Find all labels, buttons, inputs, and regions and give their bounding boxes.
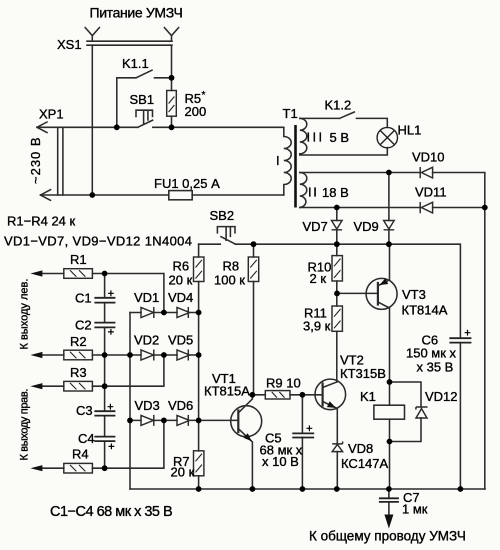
svg-text:II: II — [308, 185, 318, 200]
svg-text:VD4: VD4 — [168, 290, 193, 305]
svg-text:КТ815А: КТ815А — [204, 384, 250, 399]
svg-text:150 мк х: 150 мк х — [406, 346, 457, 361]
svg-text:КТ315В: КТ315В — [340, 366, 386, 381]
svg-text:VD3: VD3 — [135, 398, 160, 413]
svg-text:C3: C3 — [76, 403, 93, 418]
svg-text:5 В: 5 В — [330, 130, 350, 145]
svg-text:3,9 к: 3,9 к — [303, 319, 331, 334]
svg-text:VD9: VD9 — [354, 219, 379, 234]
svg-text:R8: R8 — [223, 259, 240, 274]
svg-text:R4: R4 — [72, 447, 89, 462]
svg-text:C4: C4 — [78, 431, 95, 446]
svg-text:R1: R1 — [70, 252, 87, 267]
svg-text:*: * — [202, 90, 206, 101]
svg-text:K1: K1 — [360, 389, 376, 404]
svg-text:КС147А: КС147А — [341, 456, 389, 471]
svg-text:HL1: HL1 — [398, 123, 422, 138]
svg-text:VD12: VD12 — [425, 389, 458, 404]
svg-text:Питание УМЗЧ: Питание УМЗЧ — [90, 5, 183, 21]
svg-text:КТ814А: КТ814А — [402, 303, 448, 318]
svg-text:I: I — [276, 153, 280, 168]
svg-text:XP1: XP1 — [39, 107, 64, 122]
svg-text:K1.2: K1.2 — [325, 98, 352, 113]
svg-text:х 35 В: х 35 В — [417, 360, 454, 375]
svg-text:VD1−VD7, VD9−VD12 1N4004: VD1−VD7, VD9−VD12 1N4004 — [4, 234, 192, 249]
svg-text:C2: C2 — [75, 318, 92, 333]
svg-text:18 В: 18 В — [322, 185, 349, 200]
svg-text:T1: T1 — [283, 106, 298, 121]
svg-text:VD7: VD7 — [303, 219, 328, 234]
svg-text:R6: R6 — [173, 259, 190, 274]
svg-text:1 мк: 1 мк — [402, 502, 428, 517]
svg-text:20 к: 20 к — [171, 465, 195, 480]
svg-text:XS1: XS1 — [57, 37, 82, 52]
svg-text:200: 200 — [185, 104, 207, 119]
svg-text:R9 10: R9 10 — [266, 376, 301, 391]
svg-text:20 к: 20 к — [169, 273, 193, 288]
svg-text:VD8: VD8 — [348, 441, 373, 456]
svg-text:SB2: SB2 — [210, 208, 235, 223]
svg-text:х 10 В: х 10 В — [262, 454, 299, 469]
svg-text:R2: R2 — [70, 334, 87, 349]
svg-text:SB1: SB1 — [130, 92, 155, 107]
svg-text:R3: R3 — [70, 365, 87, 380]
svg-text:2 к: 2 к — [310, 271, 327, 286]
svg-text:VD5: VD5 — [168, 333, 193, 348]
svg-text:C1: C1 — [75, 291, 92, 306]
svg-text:К выходу прав.: К выходу прав. — [19, 389, 31, 461]
svg-text:K1.1: K1.1 — [122, 56, 149, 71]
svg-text:FU1 0,25 А: FU1 0,25 А — [154, 176, 220, 191]
svg-text:К выходу лев.: К выходу лев. — [19, 279, 31, 350]
svg-text:С1−С4 68 мк х 35 В: С1−С4 68 мк х 35 В — [50, 504, 172, 520]
svg-text:100 к: 100 к — [214, 273, 245, 288]
svg-text:R1−R4 24 к: R1−R4 24 к — [7, 214, 76, 229]
svg-text:~230 В: ~230 В — [28, 136, 43, 184]
svg-text:VD11: VD11 — [415, 185, 447, 200]
svg-text:VD6: VD6 — [168, 398, 193, 413]
svg-text:VD2: VD2 — [134, 333, 159, 348]
svg-text:VD10: VD10 — [412, 150, 445, 165]
svg-text:VT3: VT3 — [402, 287, 426, 302]
svg-text:VD1: VD1 — [134, 290, 159, 305]
svg-text:III: III — [307, 130, 325, 145]
svg-text:К общему проводу УМЗЧ: К общему проводу УМЗЧ — [309, 529, 466, 544]
